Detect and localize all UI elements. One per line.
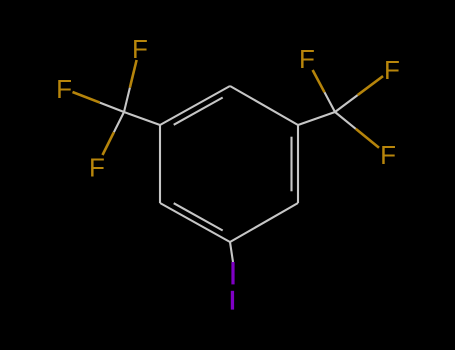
iodine label I bbox=[231, 291, 234, 310]
benzene ring bond C5-C6 (left edge) bbox=[159, 125, 161, 203]
right CF3: C-F bond to top-right F, fluorine half (gold) bbox=[358, 76, 383, 95]
svg-text:F: F bbox=[89, 153, 105, 183]
right CF3: C-F bond to top-left F, carbon half (white) bbox=[325, 92, 336, 112]
benzene ring bond C1-C2 (bottom-right edge) bbox=[230, 203, 298, 242]
benzene double bond inner line C4-C5 bbox=[174, 98, 223, 125]
svg-text:F: F bbox=[384, 55, 400, 85]
left CF3: C-F bond to top F, carbon half (white) bbox=[124, 88, 130, 112]
left CF3: C-F bond to left F, carbon half (white) bbox=[100, 103, 124, 112]
right CF3: C-F bond to bottom-right F, fluorine half (gold) bbox=[356, 129, 379, 148]
bond C5 to CF3 carbon (left substituent) bbox=[124, 112, 160, 125]
benzene double bond inner line C2-C3 bbox=[290, 137, 292, 192]
left CF3: C-F bond to bottom F, carbon half (white) bbox=[114, 112, 124, 132]
benzene ring bond C4-C5 (top-left edge) bbox=[160, 86, 230, 125]
bond C3 to CF3 carbon (right substituent) bbox=[298, 112, 335, 125]
svg-text:F: F bbox=[299, 44, 315, 74]
right CF3: C-F bond to top-right F, carbon half (white) bbox=[335, 95, 358, 112]
benzene ring bond C2-C3 (right edge) bbox=[297, 125, 299, 203]
svg-text:F: F bbox=[380, 140, 396, 170]
svg-text:F: F bbox=[56, 74, 72, 104]
bond C1 to iodine, iodine half (purple) bbox=[231, 262, 234, 284]
benzene ring bond C3-C4 (top-right edge) bbox=[230, 86, 298, 125]
svg-text:F: F bbox=[132, 34, 148, 64]
benzene double bond inner line C6-C1 bbox=[174, 203, 223, 230]
left CF3: C-F bond to left F, fluorine half (gold) bbox=[73, 92, 100, 103]
benzene ring bond C6-C1 (bottom-left edge) bbox=[160, 203, 230, 242]
right CF3: C-F bond to bottom-right F, carbon half (white) bbox=[335, 112, 356, 129]
left CF3: C-F bond to bottom F, fluorine half (gold) bbox=[103, 132, 114, 155]
right CF3: C-F bond to top-left F, fluorine half (gold) bbox=[313, 70, 325, 92]
bond C1 to iodine, carbon half (white) bbox=[230, 242, 233, 262]
left CF3: C-F bond to top F, fluorine half (gold) bbox=[130, 60, 137, 88]
